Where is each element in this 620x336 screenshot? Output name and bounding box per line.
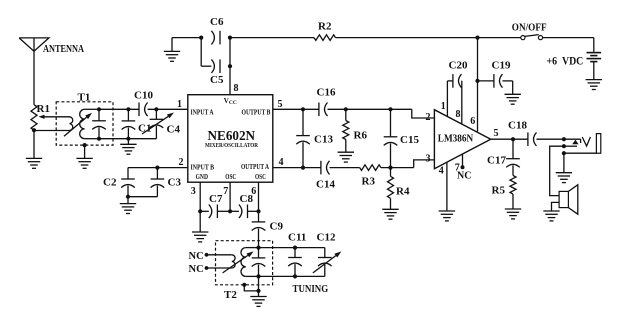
svg-text:C18: C18	[508, 120, 527, 132]
wire tank bottom rail	[99, 138, 156, 140]
wire jog to pin 3 LM386	[414, 160, 435, 168]
capacitor C14	[320, 161, 322, 175]
wire pin 7	[229, 182, 231, 211]
svg-text:8: 8	[234, 83, 239, 94]
jack sleeve body	[596, 134, 600, 154]
wire T2 to ground	[258, 276, 260, 296]
node pin8 top	[228, 36, 232, 40]
wire C16 to jog	[328, 108, 412, 110]
capacitor C19	[478, 80, 494, 82]
T1 secondary winding	[80, 109, 85, 138]
svg-text:R4: R4	[396, 186, 410, 198]
svg-text:ANTENNA: ANTENNA	[43, 43, 84, 55]
capacitor C12 (variable)	[324, 248, 326, 258]
svg-text:GND: GND	[196, 173, 208, 181]
svg-text:7: 7	[223, 186, 228, 197]
resistor R3	[360, 165, 381, 171]
node pin6/C19	[475, 79, 479, 83]
node C13 bottom	[301, 166, 305, 170]
svg-text:4: 4	[279, 157, 284, 168]
svg-text:C8: C8	[240, 193, 254, 205]
transformer T2 shield box	[216, 241, 273, 285]
node C13 top	[301, 107, 305, 111]
node C1 bottom	[126, 137, 130, 141]
node T2 bottom	[256, 274, 260, 278]
node C2 bottom	[126, 195, 130, 199]
svg-text:OUTPUT A: OUTPUT A	[241, 163, 269, 171]
node pin6/C9	[256, 209, 260, 213]
node jack sleeve	[562, 151, 566, 155]
svg-text:C16: C16	[317, 87, 336, 99]
svg-text:R5: R5	[492, 185, 506, 197]
svg-text:5: 5	[278, 99, 283, 110]
ground T2	[250, 296, 266, 298]
T1 shield ground	[83, 143, 87, 147]
capacitor C8	[230, 210, 239, 212]
wire Vcc rail left	[230, 37, 314, 39]
wire T1 secondary top rail	[85, 108, 99, 110]
svg-text:C6: C6	[210, 16, 224, 28]
svg-text:MIXER/OSCILLATOR: MIXER/OSCILLATOR	[205, 142, 258, 149]
ground R4	[382, 208, 398, 210]
capacitor C15	[390, 109, 392, 137]
capacitor C5	[219, 59, 221, 73]
svg-text:+6 VDC: +6 VDC	[547, 55, 584, 67]
svg-text:8: 8	[456, 109, 461, 120]
svg-text:C2: C2	[103, 177, 117, 189]
svg-text:C20: C20	[449, 60, 468, 72]
node R4 top	[388, 166, 392, 170]
capacitor C13	[302, 109, 304, 135]
svg-text:C15: C15	[400, 134, 419, 146]
ground jack	[563, 153, 565, 173]
speaker ground wire	[552, 202, 560, 211]
node T2 ground join	[256, 289, 260, 293]
svg-text:OSC: OSC	[255, 173, 266, 181]
svg-text:R6: R6	[354, 130, 368, 142]
svg-text:5: 5	[494, 128, 499, 139]
svg-text:3: 3	[426, 154, 431, 165]
wire C10 to pin1	[148, 108, 188, 110]
wire Vcc rail right	[336, 37, 522, 39]
speaker LS1	[559, 191, 568, 207]
wire switch to battery	[543, 37, 594, 39]
node C15 top	[388, 107, 392, 111]
node T2 top	[256, 246, 260, 250]
capacitor C18	[527, 132, 529, 146]
wire output	[491, 138, 528, 140]
LM386 pin 4 wire	[446, 163, 448, 212]
NC stub lower	[205, 266, 209, 270]
svg-text:NE602N: NE602N	[208, 128, 256, 143]
LM386 pin 7 stub	[462, 154, 464, 166]
ground antenna	[33, 130, 35, 158]
svg-text:6: 6	[470, 116, 475, 127]
IC U1 NE602N body	[188, 95, 273, 183]
svg-text:C11: C11	[288, 232, 306, 244]
T1 tuning arrow	[64, 117, 87, 136]
node pin3/C7	[198, 209, 202, 213]
wire C6/C5 left branch	[200, 38, 202, 67]
wire pin 5 rail	[273, 108, 319, 110]
svg-text:C10: C10	[134, 90, 153, 102]
svg-text:NC: NC	[457, 171, 471, 182]
transformer T1 shield box	[56, 102, 113, 145]
T2 primary winding	[232, 255, 235, 268]
node R6 top	[344, 107, 348, 111]
wire pin 2	[128, 167, 188, 169]
svg-text:C12: C12	[317, 232, 336, 244]
svg-text:C9: C9	[270, 221, 284, 233]
LM386 pin 6 wire	[477, 38, 479, 132]
node Vcc/LM386 pin6	[475, 36, 479, 40]
wire R1 bottom to T1 primary	[34, 130, 70, 132]
wire T1 secondary bottom rail	[85, 138, 99, 140]
svg-text:INPUT A: INPUT A	[191, 109, 214, 117]
wire T2 secondary top	[246, 247, 259, 249]
svg-text:C19: C19	[492, 60, 511, 72]
node pin7/C8	[228, 209, 232, 213]
resistor R2	[314, 35, 336, 41]
jack spring contact	[582, 137, 590, 146]
wire pin 3	[199, 182, 201, 232]
node C1 top	[126, 107, 130, 111]
node C11 top	[293, 246, 297, 250]
T1 internal capacitor	[97, 107, 101, 111]
R1 wiper arrow	[45, 116, 71, 118]
capacitor C4 (variable)	[155, 109, 157, 119]
node C3 top	[155, 166, 159, 170]
antenna	[19, 38, 49, 51]
ground tank	[127, 139, 129, 145]
capacitor C11	[294, 248, 296, 258]
resistor R5	[510, 175, 516, 194]
T2 internal capacitor	[258, 248, 260, 258]
T2 shield ground wire	[242, 283, 246, 287]
node C17 top	[511, 137, 515, 141]
wire tank top rail	[99, 108, 139, 110]
wire jog to pin 2 LM386	[412, 109, 435, 118]
svg-text:3: 3	[191, 186, 196, 197]
svg-text:2: 2	[179, 157, 184, 168]
svg-text:2: 2	[426, 112, 431, 123]
svg-text:T1: T1	[78, 92, 91, 104]
capacitor C1	[127, 109, 129, 121]
wire C18 to jack	[537, 138, 581, 140]
svg-text:C14: C14	[316, 178, 335, 190]
ground R6	[338, 151, 354, 153]
node jack speaker tap	[562, 144, 566, 148]
capacitor C2	[127, 168, 129, 179]
wire tank bottom rail T2	[259, 275, 325, 277]
node R1 bottom	[32, 128, 36, 132]
wire pin 4 rail	[273, 167, 321, 169]
T2 secondary winding	[241, 248, 246, 277]
capacitor C3	[156, 168, 158, 179]
jack tap wire	[564, 145, 577, 147]
ground R5	[512, 194, 514, 209]
wire pin 8	[229, 38, 231, 95]
svg-text:OUTPUT B: OUTPUT B	[242, 109, 271, 117]
node C11 bottom	[293, 274, 297, 278]
node C6 left	[199, 36, 203, 40]
svg-text:1: 1	[177, 99, 182, 110]
ground pin 4	[439, 210, 455, 212]
svg-text:NC: NC	[189, 251, 204, 262]
wire tank top rail T2	[259, 247, 325, 249]
svg-text:C13: C13	[314, 134, 333, 146]
LM386 pin 8 wire	[461, 81, 463, 124]
node jack tip	[562, 137, 566, 141]
wire C14 to R3	[330, 167, 360, 169]
capacitor C20	[447, 80, 453, 82]
T1 primary winding	[70, 117, 73, 131]
jack J1 tip contact	[580, 139, 582, 143]
ground speaker	[543, 210, 559, 212]
capacitor C6	[219, 31, 221, 45]
C12 tuning arrow	[313, 256, 336, 273]
resistor R6	[345, 109, 347, 120]
ground pin 3	[192, 231, 208, 233]
ground battery	[593, 62, 595, 80]
op-amp U2 LM386N	[434, 110, 490, 169]
svg-text:INPUT B: INPUT B	[191, 163, 215, 171]
NC stub upper	[205, 253, 209, 257]
svg-text:C3: C3	[168, 177, 182, 189]
battery +6 VDC	[587, 52, 602, 54]
resistor R1	[31, 105, 37, 131]
capacitor C17	[512, 139, 514, 159]
node C4 top	[154, 107, 158, 111]
svg-text:R1: R1	[37, 103, 50, 115]
wire jack to speaker	[550, 146, 564, 195]
LM386 pin 1 wire	[446, 81, 448, 117]
jack sleeve wire	[564, 152, 597, 154]
svg-text:C17: C17	[487, 155, 506, 167]
svg-text:R3: R3	[362, 176, 376, 188]
resistor R4	[390, 168, 392, 177]
T2 tuning arrow	[223, 255, 248, 273]
switch ON/OFF	[521, 36, 525, 40]
capacitor C7	[200, 210, 209, 212]
capacitor C16	[318, 103, 320, 117]
wire T2 secondary bottom	[246, 275, 259, 277]
svg-text:NC: NC	[189, 264, 204, 275]
svg-text:R2: R2	[318, 20, 332, 32]
capacitor C9	[258, 211, 260, 222]
wire pin 6	[258, 182, 260, 211]
svg-text:ON/OFF: ON/OFF	[512, 22, 547, 34]
svg-text:OSC: OSC	[225, 173, 236, 181]
ground C19	[512, 81, 514, 94]
svg-text:TUNING: TUNING	[293, 283, 329, 295]
capacitor C10	[138, 103, 140, 117]
C4 tuning arrow	[142, 116, 168, 134]
svg-text:4: 4	[439, 166, 444, 177]
svg-text:T2: T2	[224, 289, 237, 301]
wire R3 to jog	[381, 167, 414, 169]
ground Vcc left	[164, 50, 180, 52]
node C5 right	[228, 64, 232, 68]
svg-text:1: 1	[441, 101, 446, 112]
svg-text:C4: C4	[167, 124, 181, 136]
svg-text:LM386N: LM386N	[438, 134, 474, 145]
svg-text:C7: C7	[209, 193, 223, 205]
svg-text:C5: C5	[210, 74, 224, 86]
ground C2/C3	[127, 197, 129, 204]
